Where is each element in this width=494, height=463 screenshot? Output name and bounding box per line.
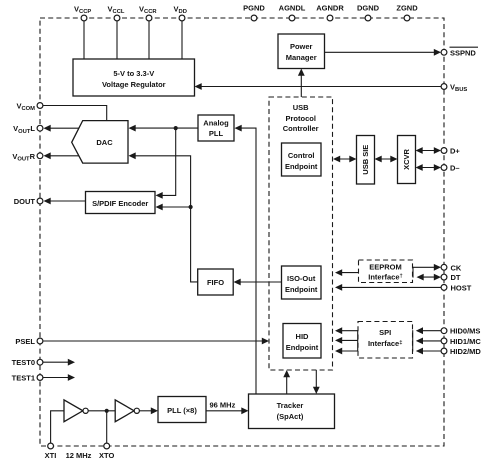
wire TEST1 stub	[43, 374, 75, 381]
pin PSEL	[15, 337, 42, 346]
wire EEPROM right edge bus bar	[412, 267, 414, 278]
wire DAC to VOUTR	[44, 152, 79, 159]
svg-text:TEST1: TEST1	[12, 374, 35, 383]
wire branch to S/PDIF encoder input 2	[156, 204, 191, 211]
svg-text:Tracker: Tracker	[277, 401, 304, 410]
wire VBUS branch to power manager and USB controller	[298, 69, 305, 98]
svg-text:XTO: XTO	[99, 451, 114, 460]
pin XTO	[99, 443, 114, 460]
EEPROM interface dashed block	[359, 260, 413, 283]
svg-text:Endpoint: Endpoint	[285, 285, 318, 294]
USB SIE block	[357, 136, 375, 185]
pin TEST1	[12, 374, 43, 383]
analog PLL block	[198, 115, 234, 141]
wire PLL to tracker, 96 MHz	[206, 401, 249, 415]
svg-text:XTI: XTI	[45, 451, 57, 460]
svg-text:D–: D–	[450, 164, 460, 173]
wire inverter 2 to PLL	[139, 407, 158, 414]
svg-text:USB: USB	[293, 103, 309, 112]
wire SPI right edge bus bar	[412, 330, 414, 351]
pin VCOM	[16, 102, 42, 113]
wire VCCR stub	[148, 21, 150, 59]
svg-text:5-V to 3.3-V: 5-V to 3.3-V	[113, 69, 154, 78]
svg-text:DOUT: DOUT	[14, 197, 36, 206]
svg-text:USB SIE: USB SIE	[361, 145, 370, 175]
svg-text:CK: CK	[451, 263, 462, 272]
tracker (SpAct) block	[249, 394, 335, 429]
PLL (x8) block	[158, 397, 206, 423]
wire XTI to inverter 1	[51, 411, 64, 443]
svg-text:SSPND: SSPND	[450, 48, 476, 57]
wire SPI interface to USB controller row 1	[335, 327, 358, 334]
svg-text:12 MHz: 12 MHz	[66, 451, 92, 460]
svg-text:PLL (×8): PLL (×8)	[167, 406, 197, 415]
pin VOUTR	[12, 152, 43, 163]
svg-text:PGND: PGND	[243, 4, 265, 13]
wire inverter 1 to inverter 2	[88, 410, 115, 412]
pin DT	[441, 273, 461, 282]
FIFO block	[198, 269, 234, 295]
control endpoint block	[282, 143, 322, 176]
svg-text:Interface†: Interface†	[368, 273, 403, 282]
svg-text:EEPROM: EEPROM	[369, 263, 402, 272]
wire HOST to USB controller	[335, 284, 441, 291]
wire EEPROM interface to DT (bidirectional)	[417, 274, 442, 281]
pin SSPND	[441, 47, 478, 57]
svg-text:Voltage Regulator: Voltage Regulator	[102, 80, 166, 89]
svg-text:ZGND: ZGND	[396, 4, 418, 13]
svg-text:DGND: DGND	[357, 4, 380, 13]
wire VCCP stub	[83, 21, 85, 59]
wire SPI left edge bus bar	[357, 330, 359, 351]
wire HID0/MS to SPI interface	[416, 327, 441, 334]
wire XCVR to D- (bidirectional)	[416, 164, 442, 171]
wire VBUS to regulator	[195, 83, 442, 90]
svg-text:(SpAct): (SpAct)	[277, 412, 304, 421]
svg-text:HOST: HOST	[451, 283, 472, 292]
pin ZGND	[396, 4, 418, 21]
junction dot to XTO	[105, 409, 109, 413]
wire DAC to VOUTL	[44, 125, 79, 132]
pin D-	[441, 164, 459, 173]
DAC block	[72, 121, 128, 164]
chip boundary dashed border	[40, 18, 444, 446]
pin VDD	[174, 5, 187, 21]
S/PDIF encoder block	[86, 192, 156, 214]
svg-text:DAC: DAC	[96, 138, 113, 147]
pin VOUTL	[13, 124, 43, 135]
svg-text:HID2/MD: HID2/MD	[450, 347, 481, 356]
junction dot on FIFO riser	[189, 205, 193, 209]
svg-text:Analog: Analog	[203, 119, 229, 128]
wire SPI interface to USB controller row 3	[335, 348, 358, 355]
svg-text:HID: HID	[296, 332, 310, 341]
pin HID2/MD	[441, 347, 481, 356]
wire tracker to USB controller (up)	[283, 370, 290, 394]
pin HOST	[441, 283, 472, 292]
pin PGND	[243, 4, 265, 21]
svg-text:AGNDL: AGNDL	[279, 4, 306, 13]
svg-text:Power: Power	[290, 42, 313, 51]
HID endpoint block	[283, 324, 321, 359]
wire junction to XTO	[106, 411, 108, 443]
svg-text:PSEL: PSEL	[15, 337, 35, 346]
inverter 1	[64, 400, 88, 422]
pin CK	[441, 263, 462, 272]
wire FIFO to DAC input 2	[129, 152, 198, 281]
wire branch to S/PDIF encoder input 1	[156, 128, 176, 199]
pin HID1/MC	[441, 337, 481, 346]
wire HID1/MC to SPI interface	[416, 338, 441, 345]
wire XCVR to D+ (bidirectional)	[416, 147, 442, 154]
svg-text:Manager: Manager	[286, 53, 317, 62]
USB protocol controller dashed block	[269, 97, 333, 370]
SPI interface dashed block	[358, 322, 413, 359]
svg-text:ISO-Out: ISO-Out	[287, 274, 316, 283]
pin VBUS	[441, 83, 467, 94]
wire USB controller to tracker (down)	[313, 370, 320, 394]
svg-text:HID0/MS: HID0/MS	[450, 327, 480, 336]
wire analog PLL to DAC	[129, 125, 199, 132]
svg-text:Control: Control	[288, 151, 315, 160]
svg-text:DT: DT	[451, 273, 461, 282]
wire VCCL stub	[116, 21, 118, 59]
pin AGNDL	[279, 4, 306, 21]
voltage regulator U1	[73, 59, 195, 96]
svg-text:Endpoint: Endpoint	[286, 343, 319, 352]
svg-text:Endpoint: Endpoint	[285, 162, 318, 171]
wire EEPROM interface to USB controller	[335, 269, 359, 276]
wire PSEL to USB controller	[43, 338, 269, 345]
svg-text:96 MHz: 96 MHz	[210, 401, 236, 410]
svg-text:D+: D+	[450, 147, 460, 156]
wire TEST0 stub	[43, 359, 75, 366]
pin XTI	[45, 443, 57, 460]
ISO-Out endpoint block	[282, 266, 322, 299]
wire EEPROM interface to CK	[413, 264, 442, 271]
pin DGND	[357, 4, 380, 21]
svg-text:Protocol: Protocol	[285, 114, 315, 123]
svg-text:FIFO: FIFO	[207, 278, 224, 287]
wire ISO-Out endpoint to FIFO	[234, 279, 282, 286]
power manager block	[278, 34, 325, 69]
wire S/PDIF encoder to DOUT	[44, 198, 86, 205]
svg-text:Controller: Controller	[283, 124, 319, 133]
wire VDD stub	[181, 21, 183, 59]
svg-text:XCVR: XCVR	[402, 149, 411, 170]
svg-text:SPI: SPI	[379, 328, 391, 337]
pin AGNDR	[316, 4, 344, 21]
svg-text:HID1/MC: HID1/MC	[450, 337, 481, 346]
pin VCCP	[74, 5, 91, 21]
pin VCCR	[139, 5, 157, 21]
XCVR block	[398, 136, 416, 184]
pin DOUT	[14, 197, 43, 206]
svg-text:TEST0: TEST0	[12, 358, 35, 367]
junction dot on PLL-DAC wire	[174, 126, 178, 130]
wire SPI interface to USB controller row 2	[335, 337, 358, 344]
wire tracker output to analog PLL	[235, 125, 257, 394]
pin VCCL	[108, 5, 125, 21]
pin HID0/MS	[441, 327, 480, 336]
wire control endpoint to USB SIE (bidirectional)	[333, 156, 357, 163]
wire SSPND from power manager	[325, 49, 442, 56]
pin D+	[441, 147, 460, 156]
pin TEST0	[12, 358, 43, 367]
wire HID2/MD to SPI interface	[416, 348, 441, 355]
svg-text:PLL: PLL	[209, 129, 224, 138]
inverter 2	[115, 400, 139, 422]
svg-text:S/PDIF Encoder: S/PDIF Encoder	[92, 199, 148, 208]
wire VCOM to DAC top	[43, 106, 107, 121]
svg-text:Interface‡: Interface‡	[368, 339, 403, 348]
wire USB SIE to XCVR (bidirectional)	[375, 156, 398, 163]
svg-text:AGNDR: AGNDR	[316, 4, 344, 13]
